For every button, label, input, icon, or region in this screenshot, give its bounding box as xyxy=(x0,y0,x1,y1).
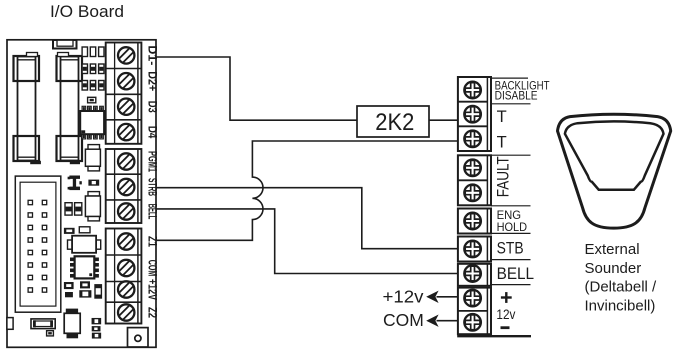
svg-text:HOLD: HOLD xyxy=(497,220,528,234)
svg-text:D2+: D2+ xyxy=(145,71,159,91)
svg-text:I/O Board: I/O Board xyxy=(50,3,124,21)
svg-text:COM: COM xyxy=(145,260,159,277)
svg-text:FAULT: FAULT xyxy=(495,156,513,197)
svg-text:T: T xyxy=(497,108,507,126)
svg-text:COM: COM xyxy=(383,310,424,330)
svg-text:D3: D3 xyxy=(145,101,159,113)
svg-text:+12V: +12V xyxy=(145,279,159,301)
svg-text:Z2: Z2 xyxy=(145,307,159,318)
svg-text:STB: STB xyxy=(497,239,524,257)
svg-text:Sounder: Sounder xyxy=(585,260,642,277)
svg-text:+12v: +12v xyxy=(383,287,424,307)
svg-text:D1-: D1- xyxy=(145,45,159,65)
svg-text:Z1: Z1 xyxy=(145,236,159,247)
svg-text:D4: D4 xyxy=(145,126,159,139)
svg-text:Invincibell): Invincibell) xyxy=(585,298,656,315)
svg-text:BELL: BELL xyxy=(145,204,159,220)
svg-text:PGM1: PGM1 xyxy=(145,151,159,172)
svg-text:External: External xyxy=(585,241,640,258)
svg-text:BELL: BELL xyxy=(497,265,534,283)
svg-text:12v: 12v xyxy=(496,307,515,322)
svg-text:(Deltabell /: (Deltabell / xyxy=(585,279,658,296)
svg-text:DISABLE: DISABLE xyxy=(495,89,538,103)
svg-text:T: T xyxy=(497,133,507,151)
svg-text:2K2: 2K2 xyxy=(375,109,414,136)
